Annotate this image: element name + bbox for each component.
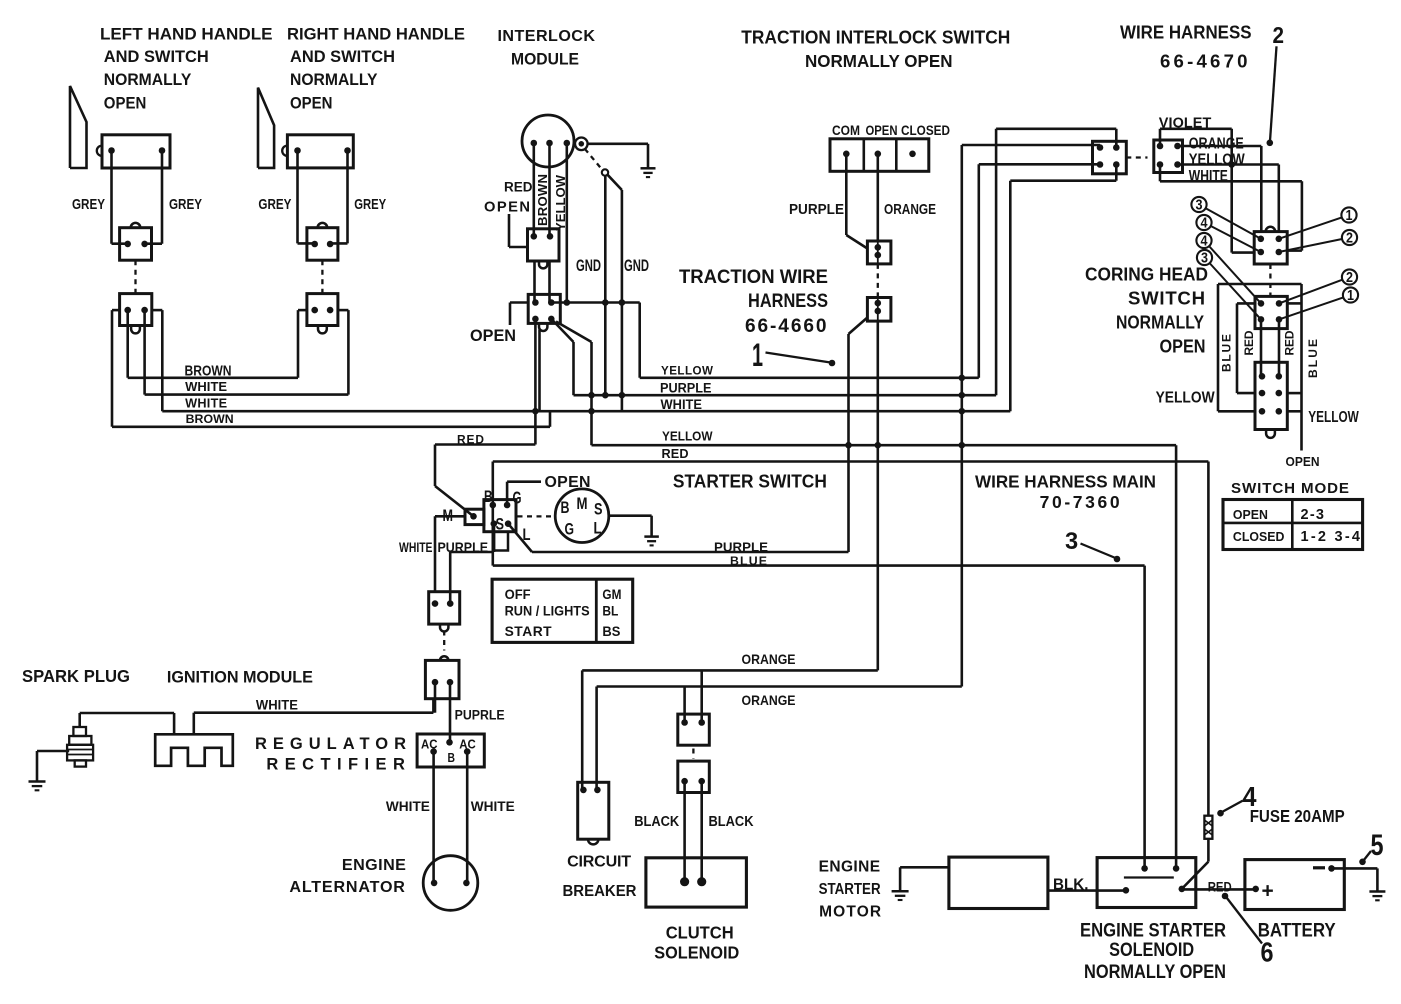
svg-text:BATTERY: BATTERY (1258, 920, 1336, 941)
svg-text:RED: RED (457, 432, 484, 446)
svg-text:INTERLOCK: INTERLOCK (498, 27, 596, 45)
svg-text:GND: GND (624, 256, 649, 275)
svg-text:GREY: GREY (258, 197, 291, 213)
svg-text:B: B (484, 487, 493, 506)
svg-text:S: S (594, 500, 603, 518)
svg-text:WHITE: WHITE (471, 798, 515, 814)
svg-text:NORMALLY: NORMALLY (104, 71, 192, 89)
svg-text:WIRE HARNESS MAIN: WIRE HARNESS MAIN (975, 471, 1156, 491)
svg-text:WHITE: WHITE (185, 379, 227, 394)
svg-text:RED: RED (1282, 330, 1296, 355)
svg-text:2: 2 (1346, 270, 1353, 286)
svg-text:NORMALLY OPEN: NORMALLY OPEN (1084, 962, 1226, 983)
svg-text:IGNITION MODULE: IGNITION MODULE (167, 668, 313, 686)
svg-text:+: + (1262, 880, 1274, 903)
svg-text:HARNESS: HARNESS (748, 291, 828, 312)
svg-text:STARTER SWITCH: STARTER SWITCH (673, 470, 827, 491)
svg-text:G: G (513, 487, 522, 507)
svg-text:MOTOR: MOTOR (819, 904, 881, 921)
svg-text:WHITE: WHITE (256, 698, 298, 714)
svg-text:3: 3 (1196, 198, 1203, 214)
svg-text:CLOSED: CLOSED (1233, 529, 1285, 544)
svg-text:OPEN: OPEN (1160, 335, 1206, 356)
svg-text:STARTER: STARTER (819, 881, 881, 898)
svg-text:S: S (496, 514, 505, 533)
svg-text:L: L (523, 526, 531, 544)
svg-text:BROWN: BROWN (185, 363, 232, 379)
svg-text:RED: RED (1242, 330, 1256, 355)
svg-text:RED: RED (662, 447, 689, 461)
svg-text:1: 1 (752, 337, 763, 373)
svg-text:BROWN: BROWN (186, 412, 234, 426)
svg-text:5: 5 (1371, 829, 1384, 862)
svg-text:NORMALLY: NORMALLY (1116, 311, 1204, 332)
svg-text:GREY: GREY (354, 197, 386, 213)
svg-text:RUN / LIGHTS: RUN / LIGHTS (505, 603, 590, 618)
svg-text:WHITE: WHITE (661, 397, 703, 412)
svg-text:L: L (594, 519, 602, 537)
svg-text:1: 1 (1346, 208, 1353, 224)
svg-text:ORANGE: ORANGE (1189, 135, 1244, 152)
svg-text:YELLOW: YELLOW (662, 428, 713, 443)
svg-text:CIRCUIT: CIRCUIT (567, 853, 631, 871)
svg-text:2: 2 (1346, 231, 1353, 247)
svg-text:COM: COM (832, 123, 860, 139)
svg-text:BLUE: BLUE (730, 554, 767, 568)
svg-text:SWITCH MODE: SWITCH MODE (1231, 480, 1349, 497)
svg-text:YELLOW: YELLOW (1308, 409, 1359, 426)
svg-text:G: G (565, 520, 575, 538)
svg-text:START: START (505, 624, 553, 639)
svg-text:AC: AC (459, 737, 476, 751)
svg-text:4: 4 (1201, 216, 1208, 232)
svg-text:YELLOW: YELLOW (1189, 152, 1245, 169)
svg-text:SOLENOID: SOLENOID (654, 943, 739, 963)
svg-text:FUSE 20AMP: FUSE 20AMP (1250, 806, 1345, 826)
svg-text:WHITE: WHITE (185, 396, 227, 410)
svg-text:SPARK PLUG: SPARK PLUG (22, 666, 130, 686)
svg-text:2-3: 2-3 (1301, 507, 1325, 523)
svg-text:CORING HEAD: CORING HEAD (1085, 263, 1208, 284)
svg-text:RIGHT HAND HANDLE: RIGHT HAND HANDLE (287, 25, 465, 44)
svg-text:RED: RED (1208, 879, 1232, 895)
svg-text:BLUE: BLUE (1219, 334, 1233, 372)
svg-text:OPEN: OPEN (866, 123, 898, 139)
svg-text:4: 4 (1201, 234, 1208, 250)
svg-text:ORANGE: ORANGE (884, 202, 936, 218)
svg-text:WIRE HARNESS: WIRE HARNESS (1120, 23, 1252, 43)
svg-text:ALTERNATOR: ALTERNATOR (289, 878, 405, 896)
svg-text:BL: BL (602, 603, 618, 618)
svg-text:TRACTION INTERLOCK SWITCH: TRACTION INTERLOCK SWITCH (741, 26, 1010, 47)
svg-text:WHITE: WHITE (1189, 168, 1228, 185)
svg-text:SWITCH: SWITCH (1128, 287, 1205, 308)
svg-text:GM: GM (602, 587, 621, 602)
svg-text:YELLOW: YELLOW (1156, 389, 1215, 406)
svg-text:PURPLE: PURPLE (438, 539, 489, 555)
svg-text:ORANGE: ORANGE (742, 693, 796, 708)
svg-text:ENGINE STARTER: ENGINE STARTER (1080, 920, 1226, 941)
svg-text:BLK.: BLK. (1053, 877, 1089, 894)
svg-text:GREY: GREY (169, 197, 202, 213)
svg-text:1: 1 (1347, 288, 1354, 304)
svg-text:ORANGE: ORANGE (742, 652, 796, 667)
svg-text:GND: GND (576, 256, 601, 275)
svg-text:M: M (577, 495, 588, 513)
svg-text:BLACK: BLACK (634, 813, 679, 830)
svg-text:OPEN: OPEN (1286, 454, 1320, 469)
svg-text:BLUE: BLUE (1306, 339, 1320, 378)
svg-text:LEFT HAND HANDLE: LEFT HAND HANDLE (100, 25, 273, 44)
svg-text:OPEN: OPEN (470, 326, 516, 345)
svg-text:BS: BS (602, 624, 620, 639)
svg-text:TRACTION WIRE: TRACTION WIRE (679, 267, 828, 288)
svg-text:3: 3 (1065, 529, 1078, 555)
svg-text:GREY: GREY (72, 197, 105, 213)
svg-text:ENGINE: ENGINE (342, 856, 406, 874)
svg-text:OPEN: OPEN (104, 95, 147, 113)
svg-text:AND SWITCH: AND SWITCH (290, 48, 395, 66)
svg-text:SOLENOID: SOLENOID (1109, 940, 1194, 961)
svg-text:RED: RED (504, 180, 533, 196)
svg-text:BROWN: BROWN (535, 174, 550, 226)
svg-text:PUPRLE: PUPRLE (455, 708, 505, 724)
svg-text:PURPLE: PURPLE (714, 539, 768, 554)
svg-text:YELLOW: YELLOW (553, 174, 568, 231)
svg-text:AND SWITCH: AND SWITCH (104, 48, 209, 66)
svg-text:OPEN: OPEN (290, 95, 333, 113)
svg-text:CLUTCH: CLUTCH (666, 923, 734, 943)
svg-text:OPEN: OPEN (1233, 507, 1268, 522)
svg-text:PURPLE: PURPLE (660, 381, 712, 396)
svg-text:YELLOW: YELLOW (661, 365, 713, 378)
svg-text:BREAKER: BREAKER (563, 882, 637, 900)
svg-text:B: B (561, 499, 570, 517)
svg-text:AC: AC (421, 737, 438, 751)
svg-text:VIOLET: VIOLET (1159, 115, 1212, 131)
svg-text:MODULE: MODULE (511, 51, 579, 69)
svg-text:REGULATOR: REGULATOR (255, 735, 406, 753)
svg-text:B: B (448, 750, 456, 765)
svg-text:WHITE: WHITE (386, 798, 430, 814)
svg-text:2: 2 (1273, 22, 1285, 48)
svg-text:PURPLE: PURPLE (789, 202, 844, 218)
svg-text:CLOSED: CLOSED (901, 123, 950, 139)
svg-text:NORMALLY OPEN: NORMALLY OPEN (805, 51, 953, 71)
svg-text:OFF: OFF (505, 587, 531, 602)
svg-text:NORMALLY: NORMALLY (290, 71, 378, 89)
svg-text:ENGINE: ENGINE (819, 859, 881, 876)
svg-text:WHITE: WHITE (399, 539, 433, 555)
svg-text:BLACK: BLACK (709, 813, 754, 830)
